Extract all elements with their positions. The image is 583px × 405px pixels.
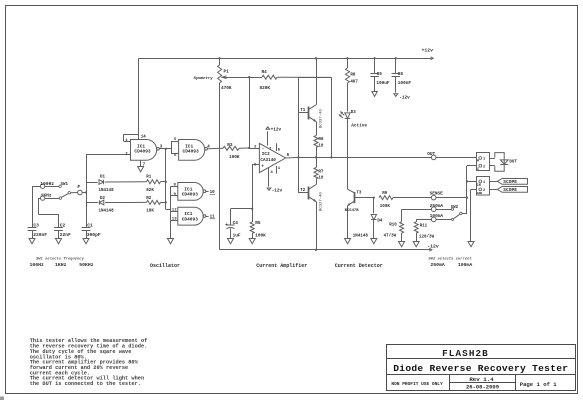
svg-text:CA3140: CA3140 — [260, 158, 276, 163]
svg-text:+: + — [261, 165, 264, 170]
svg-text:Active: Active — [351, 123, 367, 128]
svg-text:+12v: +12v — [422, 48, 434, 54]
svg-text:Oscillator: Oscillator — [150, 263, 180, 269]
svg-text:+12v: +12v — [271, 128, 282, 133]
svg-text:C4: C4 — [233, 221, 239, 226]
svg-text:D2: D2 — [100, 197, 106, 201]
svg-text:50KHz: 50KHz — [79, 262, 94, 268]
svg-text:R7: R7 — [318, 170, 324, 174]
svg-text:47/3W: 47/3W — [384, 234, 397, 239]
svg-text:26-08-2009: 26-08-2009 — [466, 384, 499, 391]
svg-text:250mA: 250mA — [430, 204, 444, 209]
svg-text:T1: T1 — [300, 109, 306, 113]
svg-text:NON PROFIT USE ONLY: NON PROFIT USE ONLY — [391, 381, 443, 387]
svg-text:22nF: 22nF — [60, 232, 71, 238]
svg-text:10: 10 — [318, 177, 324, 181]
svg-text:SW1: SW1 — [61, 183, 69, 187]
svg-text:100K: 100K — [229, 155, 240, 160]
svg-text:D3: D3 — [351, 111, 357, 115]
svg-text:R4: R4 — [262, 70, 268, 75]
svg-text:-12v: -12v — [427, 244, 439, 250]
svg-text:100mA: 100mA — [430, 214, 444, 219]
svg-text:-12v: -12v — [399, 95, 410, 100]
svg-text:the DUT is connected to the te: the DUT is connected to the tester. — [30, 381, 141, 387]
svg-text:R9: R9 — [382, 192, 388, 196]
svg-text:IC2: IC2 — [262, 152, 270, 157]
svg-text:1KHz: 1KHz — [55, 262, 67, 268]
svg-text:F: F — [77, 184, 80, 190]
svg-text:Diode Reverse Recovery Tester: Diode Reverse Recovery Tester — [393, 363, 568, 374]
svg-text:14: 14 — [141, 136, 147, 140]
svg-text:120/3W: 120/3W — [419, 235, 435, 240]
svg-text:10: 10 — [210, 191, 216, 195]
svg-text:SENSE: SENSE — [430, 192, 444, 197]
svg-text:C3: C3 — [33, 222, 39, 228]
svg-text:CD4093: CD4093 — [182, 216, 199, 222]
svg-text:T2: T2 — [300, 189, 306, 193]
svg-text:1N4148: 1N4148 — [99, 189, 115, 193]
svg-text:100K: 100K — [380, 205, 391, 209]
svg-text:T3: T3 — [356, 191, 362, 195]
svg-text:R5: R5 — [255, 221, 261, 226]
svg-text:250mA: 250mA — [430, 262, 445, 268]
svg-text:BC547B: BC547B — [345, 209, 360, 213]
svg-text:R3: R3 — [227, 143, 233, 148]
svg-text:-12v: -12v — [272, 189, 283, 194]
svg-text:1KHz: 1KHz — [41, 193, 52, 199]
svg-text:R2: R2 — [146, 197, 152, 201]
svg-text:100nF: 100nF — [398, 81, 412, 86]
svg-text:IC1: IC1 — [184, 211, 192, 217]
svg-text:CD4093: CD4093 — [134, 149, 151, 155]
svg-text:DUT: DUT — [509, 160, 517, 164]
svg-text:D1: D1 — [100, 175, 106, 179]
svg-text:CD4093: CD4093 — [183, 149, 200, 155]
svg-text:D4: D4 — [377, 220, 383, 224]
svg-text:GND: GND — [477, 192, 483, 195]
svg-text:SCOPE: SCOPE — [503, 187, 517, 193]
svg-text:1uF: 1uF — [233, 234, 241, 239]
svg-text:C1: C1 — [87, 222, 93, 228]
svg-text:820K: 820K — [260, 86, 271, 91]
svg-text:OUT: OUT — [427, 152, 435, 157]
svg-text:FLASH2B: FLASH2B — [442, 348, 489, 359]
svg-text:C6: C6 — [398, 72, 404, 77]
svg-text:1: 1 — [483, 181, 485, 185]
svg-text:BC337-40: BC337-40 — [320, 109, 324, 128]
svg-text:1N4148: 1N4148 — [99, 209, 115, 213]
svg-text:1: 1 — [483, 158, 485, 162]
svg-text:IC1: IC1 — [137, 143, 145, 149]
svg-text:12: 12 — [172, 208, 177, 212]
svg-text:100Hz: 100Hz — [40, 181, 54, 187]
svg-text:R10: R10 — [389, 224, 397, 228]
svg-text:IC1: IC1 — [184, 186, 192, 192]
svg-text:100K: 100K — [255, 234, 266, 239]
svg-text:C2: C2 — [60, 222, 66, 228]
svg-text:R1: R1 — [146, 175, 152, 179]
svg-text:IC1: IC1 — [185, 143, 193, 149]
svg-text:BC327-40: BC327-40 — [320, 192, 324, 211]
svg-text:390pF: 390pF — [87, 232, 101, 238]
svg-text:82K: 82K — [146, 189, 154, 193]
svg-text:Page 1 of 1: Page 1 of 1 — [520, 381, 558, 388]
svg-text:Current Detector: Current Detector — [335, 263, 383, 269]
svg-text:CD4093: CD4093 — [182, 192, 199, 198]
svg-text:18K: 18K — [146, 209, 154, 213]
svg-text:Rev 1.4: Rev 1.4 — [469, 376, 494, 383]
svg-text:C5: C5 — [377, 72, 383, 77]
svg-text:SW1 selects frequency: SW1 selects frequency — [36, 257, 85, 262]
svg-text:10: 10 — [318, 144, 324, 148]
svg-text:CH: CH — [477, 183, 481, 187]
svg-text:100uF: 100uF — [376, 81, 390, 86]
svg-text:2: 2 — [483, 189, 485, 193]
svg-text:100Hz: 100Hz — [30, 262, 45, 268]
svg-text:P1: P1 — [224, 69, 230, 74]
svg-text:R8: R8 — [350, 73, 356, 77]
svg-text:SW2 selects current: SW2 selects current — [428, 256, 472, 261]
svg-text:13: 13 — [172, 218, 177, 222]
svg-text:SCOPE: SCOPE — [503, 179, 517, 185]
svg-text:Current Amplifier: Current Amplifier — [256, 263, 307, 269]
svg-text:R11: R11 — [420, 225, 428, 229]
svg-text:1N4148: 1N4148 — [353, 234, 369, 238]
svg-text:220nF: 220nF — [33, 232, 47, 238]
svg-text:R6: R6 — [318, 138, 324, 142]
svg-text:C: C — [477, 168, 479, 172]
svg-text:Symmetry: Symmetry — [194, 76, 214, 81]
svg-text:4K7: 4K7 — [350, 81, 358, 85]
svg-text:11: 11 — [210, 216, 216, 220]
svg-text:470K: 470K — [221, 86, 232, 91]
svg-text:100mA: 100mA — [458, 262, 473, 268]
svg-text:2: 2 — [483, 165, 485, 169]
